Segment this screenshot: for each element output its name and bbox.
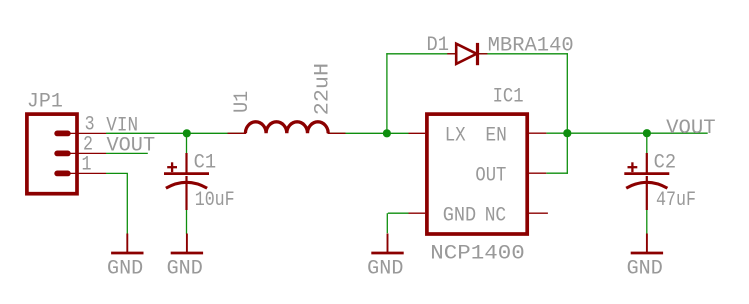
capacitor C2 curved bottom plate: [626, 182, 667, 188]
node B junction dot: [383, 129, 391, 137]
svg-text:GND: GND: [367, 257, 403, 280]
op-amp/regulator IC1 body: [427, 114, 527, 234]
connector JP1 body: [27, 114, 77, 194]
wire node C to node D to VOUT: [567, 132, 707, 134]
diode D1 anode pin: [447, 53, 456, 55]
capacitor C1 bottom lead: [185, 176, 187, 210]
IC1 pin LX: [409, 132, 426, 134]
svg-text:U1: U1: [231, 91, 254, 113]
node D junction dot: [643, 129, 651, 137]
ground symbol 1 pin: [126, 234, 128, 253]
inductor U1 left pin: [228, 132, 247, 134]
svg-text:1: 1: [82, 154, 92, 177]
wire right corner down to node C: [566, 53, 568, 174]
capacitor C1 plus sign: [167, 166, 177, 168]
inductor U1 right pin: [328, 132, 346, 134]
wire diode D1 anode horizontal: [386, 53, 456, 55]
svg-text:10uF: 10uF: [195, 189, 235, 212]
wire down-left to OUT pin: [546, 172, 568, 174]
svg-text:VOUT: VOUT: [107, 135, 156, 158]
svg-text:22uH: 22uH: [312, 63, 335, 115]
svg-text:VOUT: VOUT: [666, 117, 716, 140]
wire inductor U1 right to node B: [328, 132, 409, 134]
wire diode D1 cathode to right corner: [479, 53, 568, 55]
capacitor C1 top lead: [185, 153, 187, 175]
wire node A to inductor U1 left: [187, 132, 246, 134]
wire node B up to diode D1 anode: [386, 53, 388, 133]
svg-text:EN: EN: [485, 124, 507, 147]
connector JP1 pin 2 line: [60, 152, 106, 154]
svg-text:47uF: 47uF: [656, 189, 696, 212]
svg-text:GND: GND: [627, 257, 663, 280]
wire C1 bottom to GND: [186, 210, 188, 234]
IC1 pin OUT: [529, 172, 546, 174]
node C junction dot: [563, 129, 571, 137]
connector JP1 pin 3 contact bar: [54, 131, 70, 137]
IC1 pin NC: [529, 212, 548, 214]
svg-text:C2: C2: [654, 152, 677, 175]
svg-text:JP1: JP1: [27, 91, 63, 114]
IC1 pin GND: [409, 212, 426, 214]
svg-text:D1: D1: [427, 34, 450, 57]
IC1 pin EN: [529, 132, 547, 134]
wire node D down to C2: [646, 133, 648, 153]
ground symbol 2 pin: [186, 234, 188, 253]
svg-text:GND: GND: [443, 204, 477, 227]
wire IC GND pin leftward: [388, 212, 409, 214]
wire node A down to C1: [186, 133, 188, 153]
svg-text:GND: GND: [107, 257, 143, 280]
svg-text:C1: C1: [194, 152, 217, 175]
connector JP1 pin 3 line: [60, 132, 106, 134]
connector JP1 pin 1 contact bar: [54, 171, 70, 177]
ground symbol 4 bar: [631, 252, 663, 255]
wire IC GND down to GND symbol: [386, 213, 388, 233]
capacitor C2 top lead: [646, 153, 648, 175]
svg-text:OUT: OUT: [475, 164, 506, 187]
ground symbol 2 bar: [171, 252, 203, 255]
wire VOUT stub from JP1 pin 2: [106, 152, 148, 154]
diode D1 triangle: [456, 44, 476, 64]
svg-text:LX: LX: [445, 124, 466, 147]
ground symbol 3 bar: [371, 252, 403, 255]
svg-text:IC1: IC1: [493, 85, 524, 108]
capacitor C2 top plate: [624, 172, 669, 175]
diode D1 cathode bar: [476, 43, 479, 65]
capacitor C1 top plate: [164, 172, 209, 175]
wire EN pin to node C: [546, 132, 567, 134]
ground symbol 1 bar: [111, 252, 143, 255]
ground symbol 4 pin: [646, 234, 648, 253]
ground symbol 3 pin: [387, 234, 389, 253]
svg-text:NC: NC: [485, 204, 507, 227]
wire C2 bottom to GND: [646, 210, 648, 234]
svg-text:GND: GND: [167, 257, 203, 280]
connector JP1 pin 1 line: [60, 172, 106, 174]
capacitor C1 curved bottom plate: [166, 182, 207, 188]
diode D1 cathode pin: [478, 53, 488, 55]
wire VIN from JP1 pin 3 to node A: [106, 132, 187, 134]
svg-text:NCP1400: NCP1400: [430, 243, 525, 266]
capacitor C2 plus sign: [628, 166, 638, 168]
connector JP1 pin 2 contact bar: [54, 151, 70, 157]
svg-text:MBRA140: MBRA140: [488, 34, 574, 57]
wire from JP1 pin 1: [106, 172, 128, 174]
capacitor C2 bottom lead: [646, 176, 648, 210]
wire pin 1 down to GND: [126, 173, 128, 233]
inductor U1 winding arcs: [245, 122, 328, 134]
node A junction dot: [183, 129, 191, 137]
